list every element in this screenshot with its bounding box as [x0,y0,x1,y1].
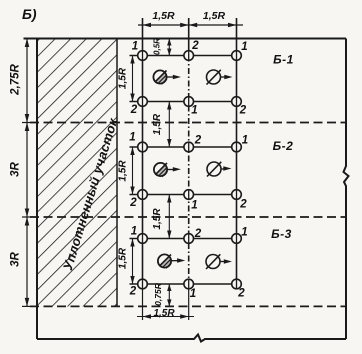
hatched zone right edge line [116,39,118,307]
row line 2 [130,101,237,103]
bottom dimension 1,5R [137,316,194,318]
svg-text:Б): Б) [22,6,37,22]
hole 2 r4c3 [232,190,242,200]
charge symbol block 3 left (hatched) [158,254,172,268]
charge symbol block 3 right (open) [206,254,220,269]
hole 2 r3c2 [184,142,194,152]
charge arrow block 2 right [222,168,227,170]
svg-text:Б-1: Б-1 [273,53,294,67]
row line 4 [130,194,237,196]
svg-text:1: 1 [129,132,135,144]
dashed block boundary line 1 [30,122,346,124]
left dimension ticks [22,122,37,124]
hole 1 r4c2 [184,190,194,200]
svg-text:1,5R: 1,5R [118,67,129,89]
svg-text:1,5R: 1,5R [153,308,175,319]
charge arrow block 2 left [167,169,176,171]
hole 1 r3c1 [138,142,148,152]
row line 6 [130,283,237,285]
left inner dimension block 2 [132,147,134,195]
hole number labels [129,40,248,300]
vertical center marks through holes [143,51,237,289]
svg-text:1: 1 [132,41,138,53]
svg-text:1: 1 [242,135,248,147]
charge arrow block 1 right [221,76,227,78]
charge arrow block 3 left [171,260,180,262]
hole 2 r2c3 [232,97,242,107]
hole 1 r1c1 [138,51,148,61]
charge symbol block 1 left (hatched) [153,70,167,84]
svg-text:1,5R: 1,5R [152,113,163,135]
hole column 3 line [236,18,238,284]
holes: block 1 row 1 [138,51,242,289]
hole column 1 line [142,18,144,284]
svg-text:1,5R: 1,5R [118,247,129,269]
hole 2 r6c3 [232,279,242,289]
svg-text:3R: 3R [10,161,22,176]
hole column 1 bottom extension [142,284,144,320]
svg-text:1: 1 [241,41,247,53]
svg-text:1,5R: 1,5R [203,10,226,22]
charge arrow block 3 right [221,261,227,263]
row line 3 [130,146,237,148]
middle dimension 1,5R (rows 2-3) [168,102,170,148]
top dimension arrowheads [143,23,237,28]
hole 1 r2c2 [184,97,194,107]
svg-text:2: 2 [237,288,245,300]
hole 2 r4c1 [138,190,148,200]
row line 5 [130,238,237,240]
middle dimension 1,5R (rows 4-5) [168,195,170,239]
hole column 2 dash-dot axis [188,56,190,285]
hatched compacted zone (Уплотненный участок) [37,39,117,307]
hole 2 r5c2 [184,234,194,244]
svg-text:1,5R: 1,5R [118,160,129,182]
top dimension line [138,24,243,26]
svg-text:2: 2 [194,135,202,147]
hole 2 r1c2 [184,51,194,61]
svg-text:2: 2 [129,286,137,298]
svg-text:1: 1 [191,105,197,117]
svg-text:2: 2 [194,228,202,240]
svg-text:1: 1 [190,288,196,300]
charge symbol block 1 right (open) [207,70,221,85]
svg-text:1,5R: 1,5R [152,208,163,230]
svg-text:Б-2: Б-2 [273,139,294,153]
top border line [24,38,347,40]
charge symbol block 2 right (open) [207,162,221,177]
bottom border line with break symbol [37,335,346,342]
dashed block boundary line 2 [30,216,346,218]
middle dimension 0,75R (bottom) [168,284,170,306]
middle dimension 0,5R (top) [168,39,170,56]
left inner dimension block 1 [132,56,134,102]
svg-text:2,75R: 2,75R [10,63,22,95]
charge symbol block 2 left (hatched) [154,163,168,177]
svg-text:1: 1 [191,200,197,212]
svg-text:1: 1 [241,227,247,239]
hole 1 r6c2 [184,279,194,289]
left border line [36,39,38,340]
svg-text:2: 2 [239,105,247,117]
charge arrow block 1 left [167,76,176,78]
right border line with break symbol [344,39,349,340]
hole 1 r5c1 [138,234,148,244]
svg-text:Б-3: Б-3 [271,227,292,241]
svg-text:0,75R: 0,75R [153,282,163,306]
dashed block boundary line 3 [30,305,346,307]
svg-text:3R: 3R [10,251,22,266]
row line 1 [130,55,237,57]
left dimension chain line [26,39,28,307]
svg-text:2: 2 [239,199,247,211]
hole 1 r1c3 [232,51,242,61]
svg-text:0,5R: 0,5R [153,38,162,55]
svg-text:1,5R: 1,5R [152,10,175,22]
svg-text:2: 2 [130,104,138,116]
hole 2 r2c1 [138,97,148,107]
hole column 2 top extension [188,18,190,56]
hole 2 r6c1 [138,279,148,289]
left dimension arrowheads [25,39,30,307]
svg-text:2: 2 [191,40,199,52]
hole 1 r5c3 [232,234,242,244]
svg-text:1: 1 [131,226,137,238]
left inner dimension block 3 [132,239,134,285]
svg-text:2: 2 [129,197,137,209]
hole 1 r3c3 [232,142,242,152]
hole column 2 bottom extension [188,284,190,320]
